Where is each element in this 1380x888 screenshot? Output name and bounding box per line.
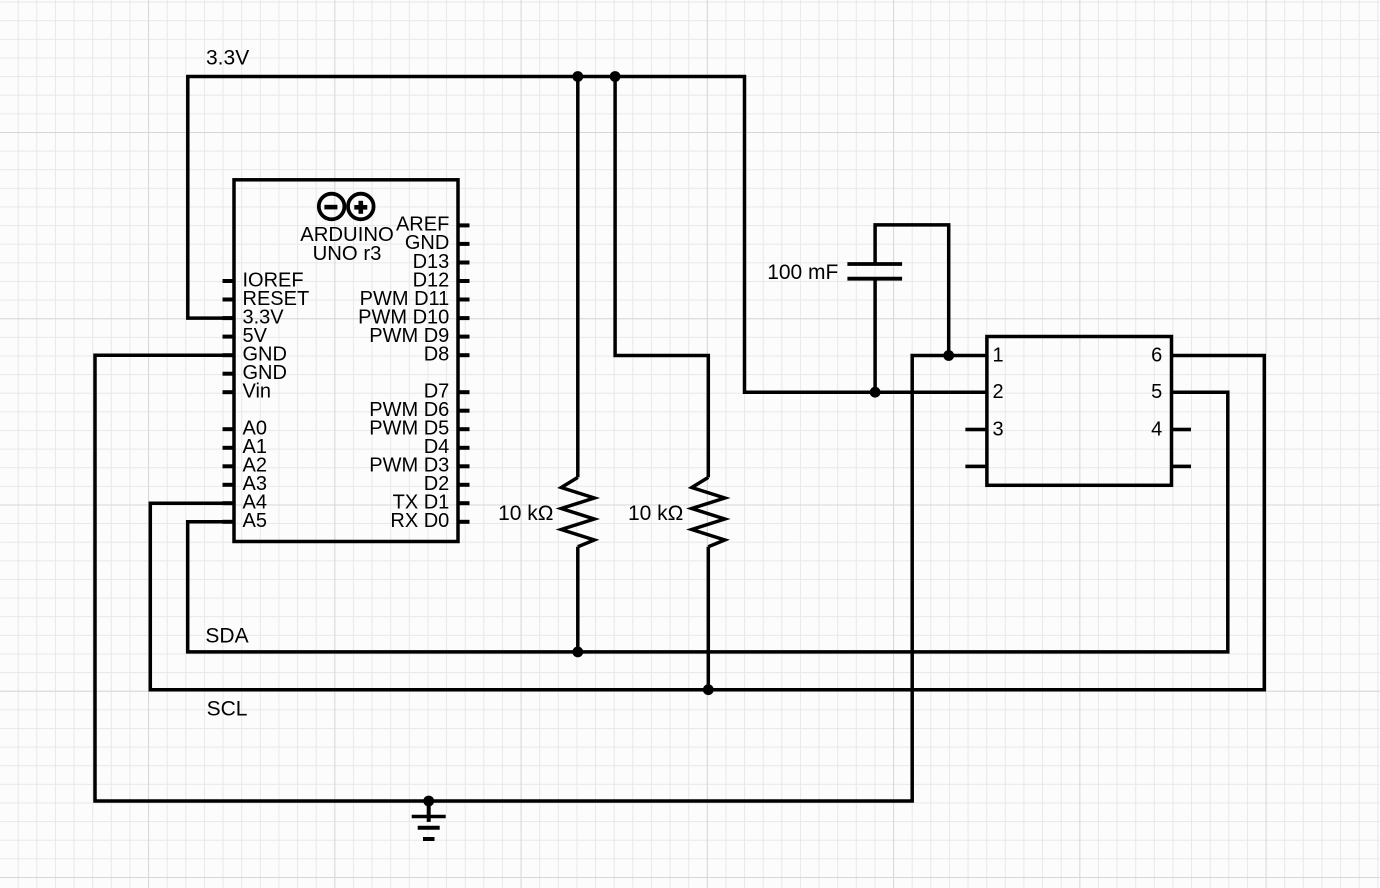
svg-text:A5: A5 — [243, 510, 267, 532]
pin D7 — [424, 381, 470, 403]
pin D8 — [424, 344, 470, 366]
pin PWM D9 — [369, 325, 469, 347]
svg-text:2: 2 — [993, 381, 1004, 403]
svg-text:6: 6 — [1151, 345, 1162, 367]
svg-text:10 kΩ: 10 kΩ — [628, 502, 683, 525]
pin A3 — [223, 473, 267, 495]
pin PWM D11 — [360, 288, 470, 310]
pin PWM D3 — [369, 455, 469, 477]
pin RX D0 — [390, 510, 469, 532]
wire resistor R1 bottom to SDA — [576, 547, 580, 652]
wire 3.3V net: Arduino 3.3V pin, top rail, down to IC pin 2 — [188, 77, 987, 393]
IC left unnumbered pin stub — [965, 465, 987, 469]
junction node rail-R1 — [572, 71, 583, 82]
junction node cap-GND — [943, 350, 954, 361]
svg-text:3: 3 — [993, 419, 1004, 441]
pin D12 — [413, 269, 470, 291]
wire rail to resistor R1 top — [576, 77, 580, 478]
wire rail to resistor R2 top (jog) — [615, 77, 708, 478]
junction node cap-3.3V — [870, 387, 881, 398]
wire capacitor top plate to GND net — [875, 225, 949, 356]
junction node R1-SDA — [572, 647, 583, 658]
junction node R2-SCL — [703, 684, 714, 695]
svg-text:SDA: SDA — [205, 624, 248, 647]
pin PWM D5 — [369, 418, 469, 440]
pin D13 — [413, 251, 470, 273]
svg-text:10 kΩ: 10 kΩ — [498, 502, 553, 525]
IC right unnumbered pin stub — [1172, 465, 1192, 469]
pin Vin — [223, 381, 272, 403]
IC pin 4 — [1151, 419, 1191, 441]
Arduino logo — [319, 194, 374, 220]
junction node rail-R2 — [610, 71, 621, 82]
pin GND-2 — [223, 362, 287, 384]
pin A5 — [223, 510, 267, 532]
pin A1 — [223, 436, 267, 458]
resistor R1 — [561, 477, 594, 546]
pin 5V — [223, 325, 268, 347]
Arduino U1 body — [234, 180, 458, 542]
IC pin 3 — [965, 419, 1003, 441]
pin PWM D6 — [369, 399, 469, 421]
svg-text:3.3V: 3.3V — [206, 47, 249, 70]
svg-text:UNO r3: UNO r3 — [313, 243, 382, 265]
pin TX D1 — [393, 492, 470, 514]
resistor R2 — [692, 477, 725, 546]
pin A0 — [223, 418, 267, 440]
pin A4 — [223, 492, 267, 514]
pin PWM D10 — [358, 306, 469, 328]
pin RESET — [223, 288, 310, 310]
pin 3.3V — [223, 306, 285, 328]
pin IOREF — [223, 269, 304, 291]
svg-text:SCL: SCL — [207, 698, 248, 721]
pin A2 — [223, 455, 267, 477]
svg-text:RX D0: RX D0 — [390, 510, 449, 532]
wire SDA net: Arduino A5 pin, down, across, up to IC pin 5 — [188, 392, 1228, 652]
svg-text:4: 4 — [1151, 419, 1162, 441]
pin D2 — [424, 473, 470, 495]
wire GND net: Arduino GND pin, left, bottom rail, up to IC pin 1 — [95, 355, 987, 801]
svg-text:5: 5 — [1151, 381, 1162, 403]
pin AREF — [396, 214, 470, 236]
pin D4 — [424, 436, 470, 458]
junction node ground — [423, 796, 434, 807]
IC U2 body — [987, 337, 1172, 486]
svg-text:1: 1 — [993, 345, 1004, 367]
pin GND-right — [405, 232, 470, 254]
ground — [412, 801, 446, 839]
wire resistor R2 bottom to SCL — [707, 547, 711, 690]
wire capacitor bottom plate to 3.3V net — [873, 278, 877, 392]
svg-text:D8: D8 — [424, 344, 450, 366]
svg-text:100 mF: 100 mF — [767, 261, 838, 284]
svg-text:Vin: Vin — [243, 381, 272, 403]
capacitor C1 plates — [847, 264, 902, 279]
pin GND-1 — [223, 344, 287, 366]
wire SCL net: Arduino A4 pin, down, across, up to IC pin 6 — [150, 356, 1264, 690]
